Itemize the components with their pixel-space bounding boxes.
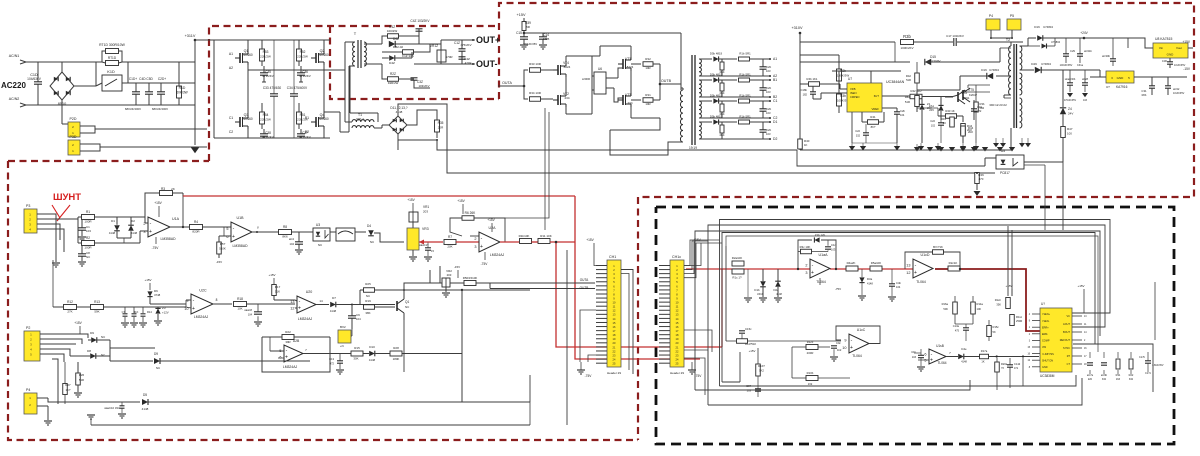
svg-text:R14: R14 bbox=[147, 310, 152, 314]
svg-text:R11c: R11c bbox=[1016, 315, 1023, 319]
svg-text:332: 332 bbox=[1102, 378, 1107, 381]
svg-text:U7: U7 bbox=[848, 77, 852, 81]
svg-text:C1: C1 bbox=[229, 116, 233, 120]
svg-text:CT: CT bbox=[1067, 363, 1071, 366]
svg-text:10R: 10R bbox=[645, 102, 650, 106]
svg-text:R25: R25 bbox=[365, 282, 371, 286]
svg-text:U8 KA7815: U8 KA7815 bbox=[1155, 37, 1172, 41]
svg-text:680UF/400V: 680UF/400V bbox=[152, 107, 168, 111]
svg-text:LM358AD: LM358AD bbox=[160, 237, 176, 241]
svg-text:OUTA: OUTA bbox=[580, 278, 589, 282]
svg-text:UC3838M: UC3838M bbox=[1040, 374, 1055, 378]
svg-text:U1sB: U1sB bbox=[936, 344, 944, 348]
svg-text:C4Z 103/2KV: C4Z 103/2KV bbox=[410, 19, 430, 23]
svg-text:+15V: +15V bbox=[586, 238, 594, 242]
svg-text:U?4804: U?4804 bbox=[1041, 62, 1051, 66]
svg-text:R4: R4 bbox=[194, 220, 198, 224]
svg-text:U1aA: U1aA bbox=[819, 253, 829, 257]
svg-text:+: + bbox=[480, 244, 483, 250]
svg-text:P2: P2 bbox=[26, 326, 30, 330]
svg-text:R2a10K: R2a10K bbox=[732, 256, 743, 260]
svg-text:P2D: P2D bbox=[70, 117, 77, 121]
svg-text:13: 13 bbox=[906, 264, 910, 268]
svg-text:510K: 510K bbox=[219, 247, 226, 251]
svg-text:51R: 51R bbox=[905, 100, 910, 104]
svg-text:aC30b: aC30b bbox=[1102, 54, 1110, 58]
svg-text:C17b: C17b bbox=[1139, 356, 1146, 359]
svg-text:6: 6 bbox=[924, 352, 926, 356]
svg-text:C22: C22 bbox=[855, 129, 860, 133]
svg-text:B1: B1 bbox=[773, 78, 777, 82]
svg-text:+24V: +24V bbox=[1080, 31, 1088, 35]
svg-text:470: 470 bbox=[979, 177, 984, 181]
svg-text:R43: R43 bbox=[941, 117, 947, 121]
svg-text:D10: D10 bbox=[369, 345, 375, 349]
svg-text:C1D+: C1D+ bbox=[129, 77, 137, 81]
svg-text:+15V: +15V bbox=[749, 349, 756, 353]
svg-text:R3b: R3b bbox=[840, 94, 846, 98]
svg-text:4148: 4148 bbox=[776, 292, 782, 296]
svg-text:2R2: 2R2 bbox=[968, 130, 973, 134]
svg-text:R51: R51 bbox=[300, 113, 306, 117]
svg-text:I SEN+: I SEN+ bbox=[1042, 313, 1051, 316]
svg-text:R3b: R3b bbox=[903, 34, 911, 39]
svg-text:R2c1K: R2c1K bbox=[949, 261, 958, 265]
svg-text:5K: 5K bbox=[993, 330, 996, 334]
svg-text:8224: 8224 bbox=[564, 65, 571, 69]
svg-text:-15V: -15V bbox=[1183, 67, 1191, 71]
svg-text:TL064: TL064 bbox=[937, 361, 946, 365]
svg-text:U2B: U2B bbox=[293, 339, 300, 343]
svg-text:-75V: -75V bbox=[481, 262, 489, 266]
svg-text:1K?: 1K? bbox=[66, 388, 71, 392]
svg-text:20K: 20K bbox=[447, 245, 452, 249]
svg-text:R47: R47 bbox=[1067, 127, 1073, 131]
svg-text:D3a: D3a bbox=[867, 277, 873, 281]
svg-text:VR3: VR3 bbox=[422, 227, 429, 231]
svg-text:U1B: U1B bbox=[237, 216, 245, 220]
svg-text:22K/2W: 22K/2W bbox=[260, 118, 271, 122]
svg-text:51K: 51K bbox=[275, 290, 280, 294]
svg-text:+15V: +15V bbox=[407, 198, 415, 202]
svg-text:R3c 10K: R3c 10K bbox=[800, 245, 811, 249]
svg-text:I SEN-: I SEN- bbox=[1042, 320, 1050, 323]
svg-text:COMP: COMP bbox=[1042, 340, 1050, 343]
svg-text:вваC1?: вваC1? bbox=[420, 243, 429, 247]
svg-text:P3D: P3D bbox=[70, 135, 77, 139]
svg-text:LM358AD: LM358AD bbox=[232, 244, 248, 248]
svg-text:T1: T1 bbox=[358, 113, 362, 117]
svg-text:R28: R28 bbox=[393, 346, 399, 350]
svg-text:C33 475/630: C33 475/630 bbox=[263, 86, 281, 90]
svg-text:+15V: +15V bbox=[457, 199, 465, 203]
svg-text:104/630V: 104/630V bbox=[27, 77, 42, 81]
svg-text:103: 103 bbox=[766, 69, 771, 73]
svg-text:103: 103 bbox=[86, 229, 91, 233]
svg-text:aC28: aC28 bbox=[1082, 78, 1089, 81]
svg-text:CH1: CH1 bbox=[609, 255, 616, 259]
svg-text:12: 12 bbox=[290, 307, 294, 311]
svg-text:472: 472 bbox=[330, 362, 335, 366]
svg-text:вваC10 334: вваC10 334 bbox=[104, 406, 120, 410]
svg-text:4748: 4748 bbox=[154, 293, 161, 297]
svg-text:A2: A2 bbox=[229, 66, 233, 70]
svg-text:A1: A1 bbox=[229, 52, 233, 56]
svg-text:35K: 35K bbox=[996, 303, 1001, 307]
svg-text:C2b: C2b bbox=[766, 65, 772, 69]
svg-text:VR1Z: VR1Z bbox=[430, 44, 438, 48]
svg-text:C1n: C1n bbox=[831, 243, 836, 247]
svg-text:2: 2 bbox=[474, 237, 476, 241]
svg-text:D9: D9 bbox=[154, 352, 158, 356]
svg-text:R12: R12 bbox=[67, 300, 73, 304]
svg-text:OUT-: OUT- bbox=[476, 59, 498, 69]
svg-text:10K: 10K bbox=[977, 307, 982, 311]
svg-text:C34 475/400V: C34 475/400V bbox=[287, 86, 308, 90]
svg-text:R4a2K: R4a2K bbox=[847, 261, 856, 265]
svg-text:40N60: 40N60 bbox=[319, 53, 329, 57]
svg-text:3: 3 bbox=[474, 245, 476, 249]
svg-text:103: 103 bbox=[831, 248, 836, 252]
svg-text:U74804: U74804 bbox=[989, 68, 999, 72]
svg-text:VREF: VREF bbox=[872, 107, 880, 111]
svg-text:4785: 4785 bbox=[543, 37, 550, 41]
svg-text:C2: C2 bbox=[229, 130, 233, 134]
svg-text:U?: U? bbox=[1106, 85, 1110, 89]
svg-text:D5b 4819: D5b 4819 bbox=[710, 52, 723, 56]
svg-text:aC4: aC4 bbox=[289, 237, 295, 241]
svg-text:D7: D7 bbox=[332, 296, 336, 300]
svg-text:104: 104 bbox=[896, 285, 901, 289]
svg-text:GND: GND bbox=[1042, 366, 1048, 369]
svg-text:4148: 4148 bbox=[109, 231, 116, 235]
svg-text:20R: 20R bbox=[438, 126, 444, 130]
svg-text:R15c: R15c bbox=[993, 325, 1000, 329]
svg-text:Header 29: Header 29 bbox=[607, 371, 621, 375]
svg-text:R5a10K: R5a10K bbox=[871, 261, 882, 265]
svg-text:C2b: C2b bbox=[900, 109, 905, 113]
svg-text:R4b 1K1: R4b 1K1 bbox=[807, 77, 818, 81]
svg-text:OUT+: OUT+ bbox=[476, 35, 500, 45]
svg-text:39R: 39R bbox=[285, 340, 290, 344]
svg-text:R42: R42 bbox=[905, 95, 911, 99]
svg-text:220: 220 bbox=[1088, 378, 1093, 381]
svg-text:VIN: VIN bbox=[1042, 346, 1046, 349]
svg-text:вваC8: вваC8 bbox=[245, 308, 253, 312]
svg-text:4148: 4148 bbox=[867, 282, 873, 286]
svg-text:R15: R15 bbox=[354, 346, 360, 350]
svg-text:R52: R52 bbox=[300, 50, 306, 54]
svg-text:475: 475 bbox=[955, 330, 960, 333]
svg-text:OUTB: OUTB bbox=[580, 286, 589, 290]
svg-text:VT5: VT5 bbox=[968, 88, 974, 92]
svg-text:100: 100 bbox=[1067, 132, 1072, 136]
svg-text:AC/N1: AC/N1 bbox=[9, 54, 20, 58]
svg-text:3: 3 bbox=[805, 271, 807, 275]
svg-text:D1: D1 bbox=[111, 219, 115, 223]
svg-text:AC/N2: AC/N2 bbox=[9, 97, 20, 101]
svg-text:+15V: +15V bbox=[74, 321, 82, 325]
svg-text:-15V: -15V bbox=[216, 260, 222, 264]
svg-text:R291: R291 bbox=[963, 96, 970, 100]
svg-text:TL064: TL064 bbox=[852, 354, 862, 358]
svg-text:D16: D16 bbox=[981, 68, 987, 72]
svg-text:470R: 470R bbox=[445, 55, 453, 59]
svg-text:234: 234 bbox=[627, 101, 632, 105]
svg-text:+15V: +15V bbox=[268, 273, 275, 277]
svg-text:R11 10K: R11 10K bbox=[540, 234, 551, 238]
svg-text:A1: A1 bbox=[773, 57, 777, 61]
svg-text:aC31b: aC31b bbox=[1084, 49, 1092, 53]
svg-text:R6 26K: R6 26K bbox=[465, 211, 477, 215]
svg-text:163: 163 bbox=[1116, 378, 1121, 381]
svg-text:SHUT DN: SHUT DN bbox=[1042, 359, 1053, 362]
svg-text:8224: 8224 bbox=[627, 65, 634, 69]
svg-text:GND: GND bbox=[1167, 53, 1175, 57]
svg-text:203: 203 bbox=[423, 210, 428, 214]
svg-text:D49: D49 bbox=[1031, 62, 1037, 66]
svg-text:R41: R41 bbox=[870, 115, 876, 119]
svg-text:PC817: PC817 bbox=[1000, 171, 1010, 175]
svg-text:OUTA: OUTA bbox=[502, 81, 512, 85]
svg-text:182: 182 bbox=[803, 93, 808, 97]
svg-text:250R: 250R bbox=[1016, 319, 1022, 323]
svg-text:10UF/35V: 10UF/35V bbox=[1173, 92, 1185, 95]
svg-text:104: 104 bbox=[290, 242, 295, 246]
svg-text:c200R: c200R bbox=[582, 77, 590, 81]
svg-text:R5?: R5? bbox=[220, 242, 226, 246]
svg-text:100R: 100R bbox=[84, 220, 92, 224]
svg-text:ШУНТ: ШУНТ bbox=[53, 192, 81, 203]
svg-text:C18b: C18b bbox=[801, 88, 808, 92]
svg-text:8K6: 8K6 bbox=[282, 235, 288, 239]
svg-text:ERR+: ERR+ bbox=[1042, 326, 1049, 329]
svg-text:10K: 10K bbox=[237, 307, 242, 311]
svg-text:-75V: -75V bbox=[695, 374, 703, 378]
svg-text:ZA1: ZA1 bbox=[929, 104, 935, 108]
svg-text:103: 103 bbox=[766, 90, 771, 94]
svg-text:OUTB: OUTB bbox=[661, 79, 672, 83]
svg-text:+N: +N bbox=[340, 344, 344, 348]
svg-text:5: 5 bbox=[226, 227, 228, 231]
svg-text:DB2-02: DB2-02 bbox=[393, 45, 404, 49]
svg-text:D5b 4819: D5b 4819 bbox=[710, 115, 723, 119]
svg-text:C9c: C9c bbox=[836, 341, 841, 345]
svg-text:Z3: Z3 bbox=[162, 306, 166, 310]
svg-text:RT1D: RT1D bbox=[108, 56, 117, 60]
svg-text:C16: C16 bbox=[977, 105, 982, 109]
svg-text:AC220: AC220 bbox=[1, 81, 26, 90]
svg-text:U?4804: U?4804 bbox=[1051, 40, 1061, 44]
svg-text:sloaC30b: sloaC30b bbox=[1065, 78, 1076, 81]
svg-text:C4b: C4b bbox=[896, 281, 901, 285]
svg-text:51K: 51K bbox=[134, 310, 139, 314]
svg-text:TL064: TL064 bbox=[916, 280, 926, 284]
svg-text:-75V: -75V bbox=[585, 374, 593, 378]
svg-text:Q1: Q1 bbox=[405, 300, 409, 304]
svg-text:VT1: VT1 bbox=[625, 57, 631, 61]
svg-text:U1cC: U1cC bbox=[857, 328, 866, 332]
svg-text:R8: R8 bbox=[283, 225, 287, 229]
svg-text:D9: D9 bbox=[90, 331, 94, 335]
svg-text:104: 104 bbox=[248, 314, 253, 317]
svg-text:ERR-: ERR- bbox=[1042, 333, 1048, 336]
svg-text:C31: C31 bbox=[1141, 89, 1147, 93]
svg-text:C2D+: C2D+ bbox=[158, 77, 166, 81]
svg-text:390:12:23:22: 390:12:23:22 bbox=[989, 103, 1007, 107]
svg-text:D4Z: D4Z bbox=[389, 61, 395, 65]
svg-text:D1b: D1b bbox=[754, 288, 760, 292]
svg-text:R53: R53 bbox=[263, 50, 269, 54]
svg-text:1б2: 1б2 bbox=[808, 382, 813, 386]
svg-text:R22: R22 bbox=[285, 330, 291, 334]
svg-text:+15V: +15V bbox=[1005, 284, 1012, 288]
svg-text:R12c: R12c bbox=[807, 340, 814, 344]
svg-text:C29: C29 bbox=[1070, 49, 1075, 53]
svg-text:59K: 59K bbox=[94, 310, 99, 314]
svg-text:Z4: Z4 bbox=[1068, 107, 1072, 111]
svg-text:Vout: Vout bbox=[1176, 46, 1182, 50]
svg-text:4148: 4148 bbox=[396, 110, 403, 114]
svg-text:R17: R17 bbox=[275, 285, 281, 289]
svg-text:12: 12 bbox=[906, 271, 910, 275]
svg-text:C13a: C13a bbox=[953, 324, 960, 328]
svg-text:4148: 4148 bbox=[142, 407, 149, 411]
svg-text:R20a: R20a bbox=[1001, 362, 1008, 366]
svg-text:60K/3W: 60K/3W bbox=[176, 91, 187, 95]
svg-text:C1b: C1b bbox=[911, 350, 916, 354]
svg-text:B7c?1K: B7c?1K bbox=[933, 245, 943, 249]
svg-text:R18: R18 bbox=[237, 297, 243, 301]
svg-text:C6?: C6? bbox=[746, 384, 751, 388]
svg-text:+: + bbox=[914, 270, 917, 276]
svg-text:C22: C22 bbox=[930, 119, 935, 123]
svg-text:R50/1510K: R50/1510K bbox=[463, 276, 478, 280]
svg-text:1.8UF/35V: 1.8UF/35V bbox=[1152, 364, 1164, 367]
svg-text:NC: NC bbox=[86, 255, 90, 259]
svg-text:4148: 4148 bbox=[330, 309, 337, 313]
svg-text:R33 10R: R33 10R bbox=[529, 62, 542, 66]
svg-text:6UT: 6UT bbox=[874, 94, 880, 98]
svg-text:D4: D4 bbox=[367, 224, 371, 228]
svg-text:R1D: R1D bbox=[179, 86, 186, 90]
svg-text:TL064: TL064 bbox=[816, 280, 826, 284]
svg-text:14: 14 bbox=[319, 299, 323, 303]
svg-text:R1b?: R1b? bbox=[758, 364, 765, 368]
svg-text:D2R/2W: D2R/2W bbox=[388, 81, 399, 85]
svg-text:R34 10R: R34 10R bbox=[529, 91, 542, 95]
svg-text:C15c: C15c bbox=[745, 327, 752, 331]
svg-text:R14a: R14a bbox=[977, 302, 984, 306]
svg-text:471: 471 bbox=[1014, 367, 1019, 370]
svg-text:C14d: C14d bbox=[1014, 362, 1021, 366]
svg-text:U74804: U74804 bbox=[1043, 25, 1053, 29]
svg-text:51R: 51R bbox=[906, 78, 911, 82]
svg-text:VR1: VR1 bbox=[423, 205, 429, 209]
svg-text:P3: P3 bbox=[26, 204, 30, 208]
svg-text:104: 104 bbox=[900, 113, 905, 117]
svg-text:RT1D 300R/10W: RT1D 300R/10W bbox=[99, 43, 126, 47]
svg-text:27K: 27K bbox=[67, 310, 72, 314]
svg-text:103: 103 bbox=[912, 356, 917, 359]
svg-text:R2: R2 bbox=[86, 236, 90, 240]
svg-text:CMPEN: CMPEN bbox=[850, 95, 859, 99]
svg-text:50K: 50K bbox=[943, 307, 948, 311]
svg-text:D8: D8 bbox=[87, 349, 91, 353]
svg-text:1K: 1K bbox=[981, 360, 984, 364]
svg-text:+: + bbox=[232, 234, 235, 240]
svg-text:R7: R7 bbox=[448, 235, 452, 239]
svg-text:R1b SR1: R1b SR1 bbox=[739, 94, 751, 98]
svg-text:LM324AJ: LM324AJ bbox=[490, 253, 505, 257]
svg-text:C1: C1 bbox=[773, 99, 777, 103]
svg-text:R14?51K: R14?51K bbox=[745, 342, 756, 346]
svg-text:C4D C5D: C4D C5D bbox=[139, 77, 153, 81]
svg-text:8: 8 bbox=[216, 298, 218, 302]
svg-text:+15V: +15V bbox=[517, 13, 526, 17]
svg-text:R12c: R12c bbox=[995, 298, 1002, 302]
svg-text:8K?: 8K? bbox=[871, 125, 876, 129]
svg-text:R13: R13 bbox=[94, 300, 100, 304]
svg-text:+310V: +310V bbox=[791, 26, 803, 30]
svg-text:+: + bbox=[298, 306, 301, 312]
svg-text:103: 103 bbox=[747, 389, 752, 393]
svg-text:5K2: 5K2 bbox=[759, 369, 764, 373]
svg-text:40N60: 40N60 bbox=[243, 53, 253, 57]
svg-text:R1b SR1: R1b SR1 bbox=[739, 73, 751, 77]
svg-text:LM324AJ: LM324AJ bbox=[194, 315, 209, 319]
svg-text:KA7916: KA7916 bbox=[1116, 85, 1128, 89]
svg-text:C17 103/2KV: C17 103/2KV bbox=[946, 34, 964, 38]
svg-text:200R: 200R bbox=[807, 351, 814, 355]
svg-text:NC: NC bbox=[366, 294, 370, 298]
svg-text:R1b SR1: R1b SR1 bbox=[739, 52, 751, 56]
svg-text:-75V: -75V bbox=[152, 246, 160, 250]
svg-text:U2C: U2C bbox=[199, 289, 207, 293]
svg-text:D1: D1 bbox=[773, 120, 777, 124]
svg-text:10R: 10R bbox=[645, 66, 650, 70]
svg-text:UC3844AN: UC3844AN bbox=[886, 80, 905, 84]
svg-text:C2b: C2b bbox=[766, 128, 772, 132]
svg-text:40N60: 40N60 bbox=[319, 117, 329, 121]
svg-text:I LIMIT/SS: I LIMIT/SS bbox=[1042, 353, 1054, 356]
svg-text:R42: R42 bbox=[906, 74, 912, 78]
svg-text:38K: 38K bbox=[365, 311, 370, 315]
svg-text:VC: VC bbox=[1067, 315, 1071, 318]
svg-text:1K: 1K bbox=[943, 121, 946, 125]
svg-text:R3: R3 bbox=[161, 187, 165, 191]
svg-text:24V: 24V bbox=[1068, 112, 1073, 116]
svg-text:C13: C13 bbox=[329, 357, 334, 361]
svg-text:C2b: C2b bbox=[766, 107, 772, 111]
svg-text:10: 10 bbox=[842, 346, 846, 350]
svg-text:+15V: +15V bbox=[487, 218, 495, 222]
svg-text:C7: C7 bbox=[122, 310, 126, 314]
svg-text:U?: U? bbox=[1041, 302, 1045, 306]
svg-text:SYNC: SYNC bbox=[1063, 347, 1070, 350]
svg-text:4148: 4148 bbox=[961, 360, 967, 364]
svg-text:100UF/35V: 100UF/35V bbox=[1060, 64, 1073, 67]
svg-text:4148: 4148 bbox=[369, 358, 376, 362]
svg-text:30K: 30K bbox=[353, 357, 358, 361]
svg-text:20V: 20V bbox=[929, 108, 934, 112]
svg-text:+: + bbox=[811, 270, 814, 276]
svg-text:R44: R44 bbox=[968, 126, 974, 130]
svg-text:+: + bbox=[930, 357, 933, 363]
svg-text:NC: NC bbox=[101, 335, 105, 339]
svg-text:D5b 4819: D5b 4819 bbox=[710, 94, 723, 98]
svg-text:aC32: aC32 bbox=[1173, 87, 1180, 91]
